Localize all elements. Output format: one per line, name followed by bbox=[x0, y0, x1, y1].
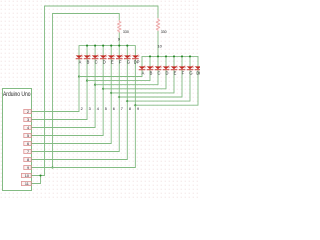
LED D2-C bbox=[155, 66, 162, 71]
svg-text:B: B bbox=[150, 70, 153, 75]
resistor R2 330 bbox=[156, 18, 159, 32]
LED D2-A bbox=[139, 66, 146, 71]
junction h4 bbox=[110, 92, 112, 94]
wire bus1 stub 1 bbox=[86, 46, 88, 56]
svg-text:8: 8 bbox=[129, 107, 131, 111]
LED D2-D bbox=[163, 66, 170, 71]
LED D1-D bbox=[100, 55, 107, 60]
pin 5 bbox=[24, 133, 32, 138]
svg-text:8: 8 bbox=[27, 158, 29, 162]
svg-text:D: D bbox=[166, 70, 169, 75]
svg-text:DP: DP bbox=[196, 70, 200, 75]
svg-text:3: 3 bbox=[27, 118, 29, 122]
wire R2 bottom to bus2 bbox=[157, 32, 159, 57]
svg-text:E: E bbox=[174, 70, 177, 75]
LED D1-F bbox=[116, 55, 123, 60]
pin 6 bbox=[24, 141, 32, 146]
wire segment A display1 to pin 2 bbox=[32, 59, 79, 112]
svg-text:7: 7 bbox=[27, 150, 29, 154]
wire segment F cross to display2 bbox=[119, 70, 182, 97]
svg-text:A: A bbox=[79, 59, 82, 64]
Arduino Uno U1 bbox=[3, 89, 32, 191]
LED D2-G bbox=[187, 66, 194, 71]
svg-text:D: D bbox=[103, 59, 106, 64]
svg-text:2: 2 bbox=[27, 110, 29, 114]
svg-text:3: 3 bbox=[89, 107, 91, 111]
wire segment DP cross to display2 bbox=[135, 70, 198, 105]
pin 2 bbox=[24, 109, 32, 114]
wire pin11 join bbox=[32, 176, 41, 184]
resistor R1 330 bbox=[118, 20, 121, 33]
svg-text:B: B bbox=[87, 59, 90, 64]
svg-text:G: G bbox=[127, 59, 130, 64]
wire segment C display1 to pin 4 bbox=[32, 59, 95, 128]
LED D1-G bbox=[124, 55, 131, 60]
junction h5 bbox=[118, 96, 120, 98]
wire segment D display1 to pin 5 bbox=[32, 59, 103, 136]
wire segment E display1 to pin 6 bbox=[32, 59, 112, 144]
svg-text:7: 7 bbox=[121, 107, 123, 111]
pin 4 bbox=[24, 125, 32, 130]
LED D2-E bbox=[171, 66, 178, 71]
wire bus2 stub 6 bbox=[189, 56, 191, 66]
svg-text:11: 11 bbox=[25, 182, 29, 186]
junction h2 bbox=[94, 84, 96, 86]
svg-text:5: 5 bbox=[27, 134, 29, 138]
pin 8 bbox=[24, 157, 32, 162]
wire bus1 stub 3 bbox=[102, 46, 104, 56]
LED D1-B bbox=[84, 55, 91, 60]
wire bus1 common display1 bbox=[79, 46, 135, 56]
svg-text:4: 4 bbox=[97, 107, 99, 111]
wire bus1 stub 4 bbox=[110, 46, 112, 56]
wire segment DP display1 to pin 9 bbox=[32, 59, 136, 168]
svg-text:C: C bbox=[95, 59, 98, 64]
wire bus2 stub 4 bbox=[173, 56, 175, 66]
wire bus2 stub 1 bbox=[149, 56, 151, 66]
pin 7 bbox=[24, 149, 32, 154]
wire R1 bottom to bus1 bbox=[118, 33, 120, 46]
junction h3 bbox=[102, 88, 104, 90]
svg-text:330: 330 bbox=[123, 30, 129, 34]
LED D1-DP bbox=[132, 55, 139, 60]
svg-text:9: 9 bbox=[27, 166, 29, 170]
svg-text:330: 330 bbox=[161, 30, 167, 34]
svg-text:10: 10 bbox=[157, 43, 162, 48]
wire bus2 stub 3 bbox=[165, 56, 167, 66]
LED D2-B bbox=[147, 66, 154, 71]
svg-text:Arduino Uno: Arduino Uno bbox=[3, 91, 31, 98]
svg-text:6: 6 bbox=[113, 107, 115, 111]
wire bus2 stub 5 bbox=[181, 56, 183, 66]
svg-text:5: 5 bbox=[105, 107, 107, 111]
wire bus1 stub 5 bbox=[118, 46, 120, 56]
pin 3 bbox=[24, 117, 32, 122]
wire pin10 to resistor R2 top bbox=[32, 6, 158, 176]
LED D2-F bbox=[179, 66, 186, 71]
svg-text:E: E bbox=[111, 59, 114, 64]
LED D1-A bbox=[76, 55, 83, 60]
svg-text:6: 6 bbox=[27, 142, 29, 146]
wire bus1 stub 6 bbox=[126, 46, 128, 56]
pin 10 bbox=[21, 173, 32, 178]
junction h6 bbox=[126, 100, 128, 102]
wire segment B cross to display2 bbox=[87, 70, 150, 81]
svg-text:DP: DP bbox=[134, 59, 140, 64]
junction h0 bbox=[78, 75, 80, 77]
LED D2-DP bbox=[195, 66, 202, 71]
svg-text:G: G bbox=[189, 70, 192, 75]
pin 11 bbox=[21, 181, 32, 186]
svg-text:C: C bbox=[158, 70, 161, 75]
wire segment C cross to display2 bbox=[95, 70, 158, 85]
junction net9 riser on pin9 wire bbox=[51, 166, 53, 168]
wire bus2 common display2 bbox=[142, 56, 198, 66]
svg-text:4: 4 bbox=[27, 126, 29, 130]
wire net9 riser to resistor R1 top bbox=[53, 14, 120, 168]
pin 9 bbox=[24, 165, 32, 170]
wire segment G cross to display2 bbox=[127, 70, 190, 101]
svg-text:A: A bbox=[142, 70, 145, 75]
wire segment D cross to display2 bbox=[103, 70, 166, 89]
wire segment A cross to display2 bbox=[79, 70, 142, 77]
LED D1-C bbox=[92, 55, 99, 60]
svg-text:2: 2 bbox=[81, 107, 83, 111]
svg-text:9: 9 bbox=[137, 107, 139, 111]
wire segment F display1 to pin 7 bbox=[32, 59, 120, 152]
wire bus1 stub 2 bbox=[94, 46, 96, 56]
wire segment E cross to display2 bbox=[111, 70, 174, 93]
svg-text:10: 10 bbox=[25, 174, 29, 178]
LED D1-E bbox=[108, 55, 115, 60]
wire segment G display1 to pin 8 bbox=[32, 59, 128, 160]
junction h1 bbox=[86, 80, 88, 82]
wire bus2 stub 2 bbox=[157, 56, 159, 66]
wire segment B display1 to pin 3 bbox=[32, 59, 87, 120]
